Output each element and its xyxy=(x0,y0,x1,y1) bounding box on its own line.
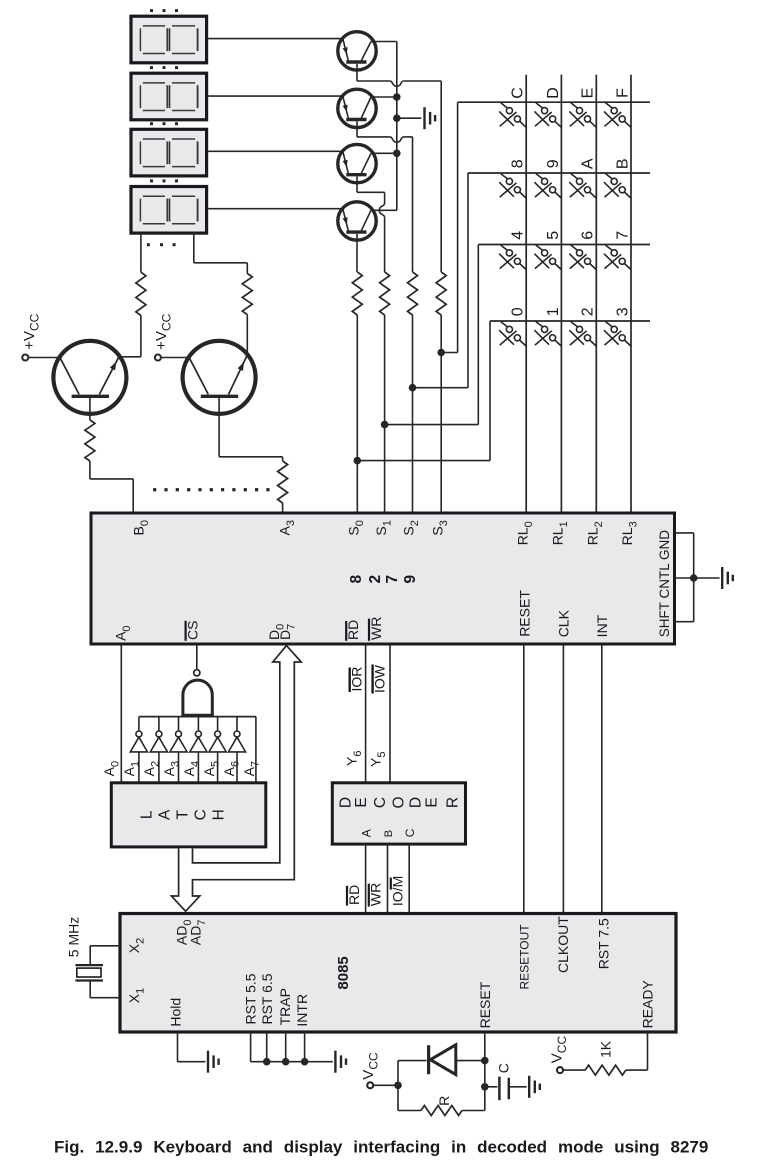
svg-text:TRAP: TRAP xyxy=(277,988,293,1025)
svg-text:8: 8 xyxy=(348,575,365,584)
svg-text:Hold: Hold xyxy=(168,998,184,1027)
svg-text:7: 7 xyxy=(614,231,631,240)
svg-text:INT: INT xyxy=(594,614,610,637)
svg-text:A: A xyxy=(359,829,373,837)
svg-text:H: H xyxy=(211,809,228,820)
svg-text:CS: CS xyxy=(184,621,200,640)
svg-text:A: A xyxy=(580,158,597,169)
svg-text:C: C xyxy=(403,828,417,837)
svg-text:RESET: RESET xyxy=(517,590,533,637)
svg-text:R: R xyxy=(436,1096,452,1106)
svg-text:RST 6.5: RST 6.5 xyxy=(259,973,275,1024)
svg-text:9: 9 xyxy=(545,159,562,168)
svg-text:CLK: CLK xyxy=(555,609,571,637)
svg-text:INTR: INTR xyxy=(294,994,310,1027)
svg-text:C: C xyxy=(510,87,527,99)
svg-text:READY: READY xyxy=(639,980,655,1029)
svg-text:8085: 8085 xyxy=(335,956,352,989)
svg-text:8: 8 xyxy=(510,159,527,168)
svg-text:F: F xyxy=(614,88,631,98)
svg-text:1K: 1K xyxy=(597,1040,613,1058)
svg-text:RESETOUT: RESETOUT xyxy=(517,924,531,990)
svg-text:D: D xyxy=(545,87,562,99)
svg-text:2: 2 xyxy=(580,307,597,316)
svg-text:C: C xyxy=(193,809,210,820)
svg-text:C: C xyxy=(495,1063,511,1073)
svg-text:RESET: RESET xyxy=(477,981,493,1028)
svg-text:1: 1 xyxy=(545,307,562,316)
svg-text:IO/M: IO/M xyxy=(390,876,406,906)
svg-text:5 MHz: 5 MHz xyxy=(66,917,82,957)
svg-text:RST 5.5: RST 5.5 xyxy=(243,973,259,1024)
svg-text:B: B xyxy=(383,830,395,837)
svg-text:WR: WR xyxy=(368,617,384,640)
svg-text:B: B xyxy=(614,158,631,169)
svg-text:E: E xyxy=(424,797,441,807)
svg-text:T: T xyxy=(175,810,192,820)
svg-text:A: A xyxy=(157,809,174,820)
svg-text:CLKOUT: CLKOUT xyxy=(555,916,571,973)
svg-text:RD: RD xyxy=(345,620,361,640)
svg-text:E: E xyxy=(580,88,597,99)
svg-text:D: D xyxy=(338,797,355,808)
svg-text:D: D xyxy=(408,797,425,808)
svg-text:9: 9 xyxy=(402,575,419,584)
svg-text:E: E xyxy=(353,797,370,807)
svg-text:2: 2 xyxy=(367,575,384,584)
svg-text:7: 7 xyxy=(384,575,401,584)
svg-text:C: C xyxy=(372,797,389,808)
svg-text:L: L xyxy=(139,810,156,819)
svg-text:RST 7.5: RST 7.5 xyxy=(595,918,611,969)
svg-text:Fig. 12.9.9 Keyboard and displ: Fig. 12.9.9 Keyboard and display interfa… xyxy=(54,1138,708,1157)
svg-text:4: 4 xyxy=(510,231,527,240)
svg-text:0: 0 xyxy=(510,307,527,316)
svg-text:SHFT CNTL GND: SHFT CNTL GND xyxy=(657,530,672,638)
svg-text:3: 3 xyxy=(614,307,631,316)
svg-text:O: O xyxy=(390,796,407,808)
svg-text:5: 5 xyxy=(545,231,562,240)
svg-text:WR: WR xyxy=(368,883,384,906)
svg-text:6: 6 xyxy=(580,231,597,240)
svg-text:RD: RD xyxy=(346,885,362,905)
svg-text:R: R xyxy=(444,797,461,808)
